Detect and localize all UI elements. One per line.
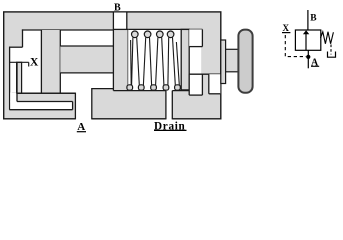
- spring top coil circles: [132, 31, 174, 38]
- svg-text:X: X: [30, 56, 39, 68]
- symbol X pilot dashed line: [285, 35, 306, 57]
- cavity lower-left wall: [9, 47, 11, 110]
- right edge white notch: [209, 74, 221, 94]
- svg-text:B: B: [310, 13, 317, 23]
- horizontal X channel along bottom: [9, 62, 72, 109]
- slot cap line: [10, 61, 29, 63]
- right plug lower white notch: [189, 74, 220, 95]
- spring seat plate: [181, 29, 189, 90]
- port A channel left wall: [74, 93, 76, 120]
- chamber bottom line left of drain: [113, 90, 165, 92]
- symbol spring: [321, 32, 334, 44]
- spring coil strands: [131, 38, 180, 86]
- knob: [238, 30, 252, 93]
- spring chamber: [113, 29, 202, 90]
- cavity step line: [9, 46, 22, 48]
- center column under B: [113, 12, 128, 91]
- knob shaft: [226, 49, 239, 72]
- drain slot: [166, 91, 172, 121]
- cavity outline lines: [9, 29, 113, 119]
- floor line over wall and bar (redraw): [16, 92, 75, 94]
- symbol B line: [307, 10, 309, 30]
- hanging bar (valve seat wall): [41, 30, 60, 93]
- spring bottom coil circles: [127, 85, 180, 90]
- symbol drain tank: [328, 52, 336, 58]
- svg-text:X: X: [283, 23, 290, 33]
- cap end stub: [28, 62, 30, 66]
- symbol square: [295, 30, 320, 50]
- cavity top line: [22, 29, 114, 31]
- valve body outer block: [4, 12, 221, 119]
- chamber top line: [128, 28, 202, 30]
- symbol drain dashed line: [330, 45, 332, 55]
- adjusting screw bushing: [221, 40, 226, 84]
- svg-text:B: B: [114, 3, 121, 14]
- port A channel right wall: [91, 88, 93, 119]
- chamber bottom line right of drain: [172, 90, 189, 92]
- right plug upper white notch: [189, 29, 202, 46]
- spool (piston): [60, 46, 113, 73]
- symbol A line: [307, 50, 309, 68]
- main left cavity with port A channel: [10, 30, 113, 120]
- X pilot passage slot and wall: [10, 62, 29, 93]
- cavity upper-left wall: [22, 29, 24, 47]
- port B channel: [113, 13, 126, 30]
- symbol junction dot: [306, 55, 310, 59]
- block top edge right of port A: [92, 88, 114, 90]
- symbol arrow: [305, 34, 307, 51]
- cavity floor line: [12, 92, 76, 94]
